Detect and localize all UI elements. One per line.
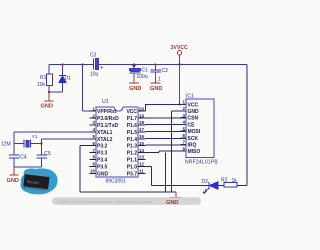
svg-text:GND: GND bbox=[97, 171, 109, 177]
svg-text:CE: CE bbox=[188, 122, 196, 128]
svg-text:+: + bbox=[100, 66, 104, 72]
svg-text:GND: GND bbox=[150, 86, 162, 92]
svg-text:C1: C1 bbox=[142, 68, 149, 74]
wire P1.0 to D2 bbox=[146, 166, 209, 185]
svg-text:VCC: VCC bbox=[188, 102, 199, 108]
wire RST drop to U1 pin1 bbox=[83, 65, 90, 112]
resistor R2 bbox=[221, 178, 237, 187]
wire crystal ground run bbox=[14, 166, 42, 168]
svg-text:17: 17 bbox=[139, 127, 144, 132]
svg-text:18: 18 bbox=[139, 120, 144, 125]
svg-text:100u: 100u bbox=[137, 74, 148, 80]
wire VCC rail top bbox=[49, 64, 247, 66]
wire MISO net vertical bbox=[165, 153, 167, 192]
svg-text:P1.0: P1.0 bbox=[127, 164, 138, 170]
capacitor C1 bbox=[129, 63, 148, 92]
svg-text:Frame tech with total accuracy: Frame tech with total accuracy of Bqual … bbox=[58, 199, 151, 204]
svg-text:.1: .1 bbox=[157, 77, 161, 83]
svg-text:P3.2: P3.2 bbox=[97, 144, 108, 150]
svg-text:P1.4: P1.4 bbox=[127, 137, 138, 143]
U1 left pin numbers bbox=[90, 106, 95, 173]
svg-text:P1.3: P1.3 bbox=[127, 144, 138, 150]
svg-text:P1.1: P1.1 bbox=[127, 158, 138, 164]
wire P3.2 to ground run bbox=[80, 146, 176, 192]
node junction D1 top on RST rail bbox=[61, 63, 63, 65]
svg-text:89C2051: 89C2051 bbox=[106, 179, 127, 185]
IC1 pin stubs bbox=[181, 104, 187, 151]
svg-text:P3.4: P3.4 bbox=[97, 158, 108, 164]
svg-text:C5: C5 bbox=[44, 151, 51, 157]
svg-text:R1: R1 bbox=[40, 75, 47, 81]
svg-text:C3: C3 bbox=[90, 53, 97, 59]
wire R1 bottom bbox=[49, 86, 63, 93]
svg-text:U1: U1 bbox=[102, 99, 109, 105]
svg-text:3VVCC: 3VVCC bbox=[171, 45, 189, 51]
IC U1 89C2051 bbox=[96, 99, 138, 185]
svg-text:P3.5: P3.5 bbox=[97, 164, 108, 170]
capacitor C4 bbox=[9, 144, 27, 167]
ground below R1 bbox=[41, 92, 54, 109]
IC1 pin numbers bbox=[183, 100, 186, 152]
capacitor C2 bbox=[150, 63, 168, 92]
svg-text:P1.2: P1.2 bbox=[127, 151, 138, 157]
svg-text:R2: R2 bbox=[221, 178, 228, 184]
wire XTAL2 run bbox=[42, 139, 90, 144]
ground left crystal bbox=[7, 167, 19, 184]
svg-text:15: 15 bbox=[139, 141, 144, 146]
svg-text:P1.7: P1.7 bbox=[127, 116, 138, 122]
svg-text:19: 19 bbox=[139, 113, 144, 118]
svg-text:VPP/Rst: VPP/Rst bbox=[97, 109, 117, 115]
svg-text:GND: GND bbox=[188, 109, 200, 115]
svg-text:1k: 1k bbox=[232, 178, 238, 184]
svg-text:16: 16 bbox=[139, 134, 144, 139]
svg-text:14: 14 bbox=[139, 148, 144, 153]
svg-text:GND: GND bbox=[129, 86, 141, 92]
photo chip module bbox=[20, 168, 57, 194]
svg-text:10u: 10u bbox=[90, 72, 99, 78]
wire IC1 GND down bbox=[171, 111, 186, 192]
wire XTAL1 run bbox=[14, 132, 90, 144]
svg-text:NRF24L01PB: NRF24L01PB bbox=[185, 160, 218, 166]
U1 right pin labels bbox=[126, 109, 137, 177]
svg-text:IRQ: IRQ bbox=[188, 143, 197, 149]
svg-text:VCC: VCC bbox=[126, 109, 137, 115]
wire P1.7 to CSN bbox=[146, 117, 187, 119]
capacitor C5 bbox=[36, 144, 51, 167]
svg-text:13: 13 bbox=[139, 155, 144, 160]
svg-text:P3.1/TxD: P3.1/TxD bbox=[97, 123, 119, 129]
wire P1.3 to IRQ bbox=[146, 144, 187, 146]
svg-text:P3.0/RxD: P3.0/RxD bbox=[97, 116, 119, 122]
svg-text:D1: D1 bbox=[65, 76, 72, 82]
svg-text:Y1: Y1 bbox=[32, 134, 38, 140]
svg-text:SCK: SCK bbox=[188, 136, 199, 142]
wire R2 to VCC rail right edge bbox=[237, 65, 247, 186]
svg-text:GND: GND bbox=[41, 103, 53, 109]
svg-text:XTAL1: XTAL1 bbox=[97, 130, 113, 136]
node junction crystal right / C5 bbox=[40, 142, 42, 144]
svg-text:P1.5: P1.5 bbox=[127, 130, 138, 136]
watermark band bbox=[52, 197, 201, 205]
svg-text:12M: 12M bbox=[1, 142, 11, 148]
svg-text:MISO: MISO bbox=[188, 149, 201, 155]
svg-text:C2: C2 bbox=[162, 68, 169, 74]
U1 left pin stubs bbox=[90, 111, 97, 173]
ground center bottom bbox=[170, 192, 182, 197]
svg-text:P3.7: P3.7 bbox=[127, 171, 138, 177]
svg-text:GND: GND bbox=[166, 200, 178, 206]
svg-text:C4: C4 bbox=[20, 155, 27, 161]
capacitor C3 bbox=[90, 53, 104, 78]
IC IC1 NRF24L01 bbox=[185, 94, 218, 166]
resistor R1 bbox=[37, 74, 53, 88]
diode D1 bbox=[59, 65, 71, 93]
svg-text:10k: 10k bbox=[37, 82, 46, 88]
wire rail to R1 bbox=[48, 65, 50, 75]
power 3VVCC bbox=[171, 45, 189, 106]
wire U1 VCC pin20 to IC1 pin1 bbox=[146, 104, 187, 111]
svg-text:10: 10 bbox=[90, 169, 95, 174]
node junction RST drop on rail bbox=[81, 63, 83, 65]
U1 right pin numbers bbox=[139, 106, 144, 173]
wire P1.2 to MISO bbox=[146, 151, 187, 152]
svg-text:XTAL2: XTAL2 bbox=[97, 137, 113, 143]
svg-text:MOSI: MOSI bbox=[188, 129, 201, 135]
svg-text:12: 12 bbox=[139, 162, 144, 167]
U1 left pin labels bbox=[97, 109, 119, 177]
wire P1.6 to CE bbox=[146, 124, 187, 126]
svg-text:11: 11 bbox=[139, 169, 144, 174]
svg-text:GND: GND bbox=[7, 178, 19, 184]
U1 right pin stubs bbox=[138, 111, 146, 173]
wire P1.5 to MOSI bbox=[146, 131, 187, 133]
LED D2 bbox=[202, 179, 225, 193]
wire P1.4 to SCK bbox=[146, 137, 187, 139]
crystal Y1 bbox=[1, 134, 42, 148]
svg-text:P3.3: P3.3 bbox=[97, 151, 108, 157]
svg-text:P1.6: P1.6 bbox=[127, 123, 138, 129]
svg-text:20: 20 bbox=[139, 106, 144, 111]
node junction R1 bottom GND bbox=[48, 91, 50, 93]
svg-text:CSN: CSN bbox=[188, 116, 199, 122]
IC1 pin labels bbox=[188, 102, 201, 155]
svg-text:D2: D2 bbox=[202, 179, 209, 185]
